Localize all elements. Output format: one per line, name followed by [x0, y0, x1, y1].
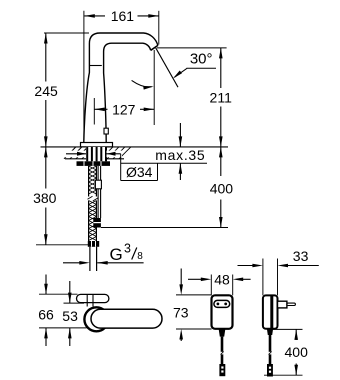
dim diam 34 arrows: [64, 151, 86, 158]
lever pill: [77, 294, 109, 302]
svg-text:245: 245: [34, 83, 58, 99]
svg-text:Ø34: Ø34: [126, 164, 153, 180]
mounting shank with threads: [86, 147, 107, 161]
power supply front box: [212, 295, 233, 329]
body circle: [84, 307, 108, 331]
svg-text:380: 380: [33, 190, 57, 206]
dim 245: [45, 33, 47, 82]
top view extension line (lever top): [39, 293, 78, 295]
svg-text:30°: 30°: [190, 51, 213, 68]
dim max.35 arrows: [179, 123, 181, 147]
dim G3/8 arrows: [63, 262, 82, 264]
water stream vertical line: [153, 50, 155, 125]
hose end nut: [88, 241, 99, 247]
svg-text:400: 400: [210, 180, 234, 196]
top view extension line (lever bottom): [64, 302, 85, 304]
dim 48: [188, 278, 204, 280]
front cable: [221, 337, 224, 364]
30 deg stream line: [156, 48, 178, 87]
side cable connector: [267, 364, 273, 377]
dim 127 centerline extension: [93, 98, 95, 125]
dim 245 extension top: [44, 32, 89, 34]
dim 400 bottom extension: [101, 227, 228, 229]
faucet spout outer contour: [84, 33, 158, 143]
deck bottom extension / shelf: [121, 162, 207, 164]
dim 66: [45, 275, 47, 295]
diam 34 box: [120, 154, 122, 181]
power supply side box: [263, 295, 278, 328]
dim 161: [84, 15, 105, 17]
spout outlet face: [151, 45, 158, 50]
svg-text:max.35: max.35: [155, 147, 205, 163]
dim 127: [94, 108, 107, 110]
hose break marks: [88, 196, 93, 199]
locknut below deck: [77, 161, 111, 166]
svg-text:G: G: [110, 245, 123, 264]
svg-text:127: 127: [112, 102, 136, 118]
dim 400 right: top extension: [272, 328, 303, 330]
svg-text:161: 161: [111, 8, 135, 24]
dim 48 extension lines: [210, 275, 212, 296]
dim 400 right: [295, 329, 297, 340]
svg-text:8: 8: [137, 251, 143, 262]
lever ticks: [86, 295, 88, 307]
svg-text:53: 53: [62, 308, 78, 324]
svg-text:66: 66: [38, 306, 54, 322]
dim 33: [238, 265, 256, 267]
plug face oval: [214, 300, 230, 307]
svg-text:211: 211: [210, 89, 233, 105]
rod fitting: [95, 180, 101, 189]
30 deg leader: [175, 68, 188, 77]
svg-text:400: 400: [285, 344, 309, 360]
plug pin holes: [217, 303, 220, 306]
dim 380: [45, 147, 47, 189]
sensor window: [104, 128, 108, 134]
dim 400 right: bottom extension: [264, 374, 303, 376]
dim 53: [69, 281, 71, 303]
front cable stub: [219, 329, 226, 336]
spout pill (top view): [91, 309, 162, 328]
side cable: [269, 335, 272, 364]
dim 400 main: [220, 147, 222, 176]
dim 73: [180, 269, 182, 288]
side box seam band: [270, 296, 273, 329]
dim 211: [220, 48, 222, 88]
counter deck top line: [41, 146, 229, 148]
faucet spout inner contour: [104, 43, 151, 142]
plug base: [278, 301, 287, 308]
svg-text:48: 48: [214, 272, 230, 288]
top view extension line (bottom): [39, 327, 87, 329]
plug pin: [287, 303, 296, 305]
rod end fitting (dark): [93, 218, 101, 228]
side cable stub: [267, 329, 273, 335]
svg-text:33: 33: [293, 248, 309, 264]
base flange: [81, 143, 113, 147]
dim 380 bottom extension: [36, 244, 89, 246]
front cable connector: [219, 364, 225, 376]
30 deg swing arc: [132, 80, 152, 87]
G3/8 threaded tail pipe: [89, 247, 91, 271]
body parting line: [89, 65, 101, 67]
deck hatching right: [101, 147, 113, 159]
dim 161 extension lines: [83, 11, 85, 143]
braided supply hose: [88, 166, 90, 197]
svg-text:73: 73: [173, 305, 189, 321]
dim 33 extension lines: [262, 259, 264, 296]
dim 211 extension: [157, 47, 227, 49]
dim 73 extensions: [176, 294, 212, 296]
counter deck bottom line: [65, 158, 124, 160]
svg-text:3: 3: [124, 242, 131, 256]
deck hatching left: [64, 147, 76, 159]
mounting rod: [97, 166, 99, 218]
